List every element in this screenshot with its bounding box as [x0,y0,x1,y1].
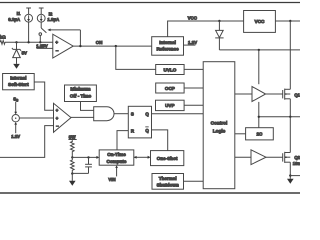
switch control arrow from ON feedback [47,29,80,32]
ground for divider [69,174,76,186]
capacitor C1 feedforward [85,157,92,173]
wire Q2 source to right edge [290,175,300,177]
current source I2 [37,14,45,22]
box UVP [156,100,185,110]
node dot SW left [258,116,260,118]
ground for zener [13,64,20,69]
selector node circle [12,115,19,122]
svg-text:1.8µA: 1.8µA [47,17,60,22]
box VCC regulator [244,11,276,33]
buffer U5 top gate driver [252,87,266,102]
wire Qbar to one-shot [152,130,168,151]
node dot divider ground [71,172,73,174]
node dot boot branch [258,49,260,51]
node dot I1 tap [27,41,29,43]
bottom rule [0,192,300,194]
svg-text:Internal: Internal [159,40,176,45]
arrow SS into selector [14,102,17,115]
svg-text:OCP: OCP [165,86,175,91]
supply tick for I1 [26,8,31,14]
buffer U6 bottom gate driver [251,150,266,165]
AND gate U3 [94,107,114,121]
wire boot down to driver [258,50,260,84]
node dot VCC right [289,20,291,22]
svg-text:2C: 2C [256,132,263,137]
wire thermal shutdown to control logic [184,180,204,182]
svg-text:+: + [56,108,59,113]
svg-text:1.2V: 1.2V [11,134,20,139]
svg-text:Off - Time: Off - Time [70,93,92,98]
node dot FB divider [71,156,73,158]
wire control to top driver [235,93,252,95]
wire control to 2C [235,133,246,135]
node dot zener tap [15,41,17,43]
resistor R1 10k at left edge [0,40,5,44]
op-amp U2 error comparator [54,103,72,132]
svg-text:10m: 10m [293,161,300,166]
svg-text:VCC: VCC [188,15,198,20]
wire Q to control logic [152,113,204,115]
wire U2 output to AND [71,116,94,118]
svg-text:Compute: Compute [107,159,127,164]
box internal reference [152,37,184,56]
svg-text:I2: I2 [49,11,53,16]
latch U4 SR [128,106,151,138]
zener diode D2 5V [12,42,21,64]
svg-text:−: − [56,49,59,54]
wire SW node to right edge [259,116,300,118]
box thermal shutdown [152,174,184,190]
wire UVP to control logic [184,104,203,106]
box minimum off-time [65,85,97,102]
node dot cap tap [87,156,89,158]
svg-text:Q1: Q1 [294,92,300,97]
arrow 1.2V into selector [14,122,17,133]
svg-text:On-Time: On-Time [107,152,126,157]
wire driver to Q1 gate [266,93,283,95]
svg-text:Logic: Logic [213,129,226,134]
svg-text:ON: ON [96,40,103,45]
svg-text:Q: Q [145,128,149,133]
ground for Q2 [287,179,294,184]
svg-text:1.2V: 1.2V [188,40,197,45]
wire control to bottom driver [235,156,251,158]
bootstrap diode D1 [215,21,223,50]
svg-text:SS: SS [13,97,18,103]
box OCP [156,83,184,93]
svg-text:+: + [56,116,59,121]
wire on-time to one-shot [134,156,148,158]
switch SW1 contact [39,33,42,36]
svg-text:0.3µA: 0.3µA [8,17,21,22]
node dot Q2 source [289,174,291,176]
wire soft-start to error amp [34,82,53,110]
box one-shot [151,151,184,166]
wire VCC rail [168,21,300,37]
wire I2 to switch [40,22,42,28]
svg-text:Q: Q [145,112,149,117]
wire 1.2V output stub [184,44,196,46]
svg-text:Reference: Reference [156,47,179,52]
svg-text:+: + [55,40,58,45]
svg-text:One-Shot: One-Shot [157,156,178,161]
node dot SW at Q1 [289,116,291,118]
node dot I2 tap [39,41,41,43]
op-amp U1 on-comparator [53,34,73,58]
svg-text:−: − [56,123,59,128]
svg-text:Control: Control [211,121,228,126]
wire VCC down to Q1 drain [289,21,291,89]
arrow VIN into on-time compute [115,165,118,176]
svg-text:1.25V: 1.25V [36,44,48,49]
wire UVLO to control logic [184,68,203,70]
wire selector to error amp [19,117,53,119]
wire OCP to control logic [184,87,203,89]
resistor R3 divider bottom [71,157,75,173]
mosfet Q2 [283,152,291,163]
resistor R2 divider top [68,135,76,158]
wire main input node [5,41,53,43]
top rule [0,2,300,4]
node dot diode anode [218,20,220,22]
arrow into on-time compute [96,156,99,159]
wire I1 to node [28,22,30,42]
box on-time compute [99,150,134,165]
svg-text:5V: 5V [22,51,27,56]
svg-text:100kΩ: 100kΩ [0,35,6,40]
node dot feedback tap [79,45,81,47]
wire driver to SW [258,102,260,128]
wire R from on-time compute [117,131,128,150]
wire min-off-time to AND [81,102,94,111]
1.25V reference stub into minus input [36,47,52,49]
svg-text:VIN: VIN [108,177,115,182]
wire Q2 source to ground [289,162,291,179]
feedback wire from comparator output [79,30,81,46]
mosfet Q1 [283,89,291,100]
box 2C [246,128,274,140]
wire Q1 source to SW [289,99,291,117]
wire cap to divider ground node [72,172,88,174]
svg-text:Q2: Q2 [294,155,300,160]
svg-text:S: S [131,112,134,117]
svg-text:Soft-Start: Soft-Start [8,82,29,87]
wire U1 output ON [73,45,152,47]
svg-text:Minimum: Minimum [70,87,90,92]
svg-text:Thermal: Thermal [159,176,177,181]
svg-text:Internal: Internal [10,76,26,81]
node blob at on-time output [134,156,137,159]
box internal soft-start [3,74,35,90]
wire ON down to UVLO [116,46,156,69]
box UVLO [156,65,184,75]
svg-text:SW: SW [69,135,77,140]
wire switch to node [39,35,41,42]
box control logic [203,62,235,189]
wire AND output to S [114,113,128,115]
current source I1 [25,14,33,22]
wire Q2 drain to SW [289,117,291,153]
svg-text:VCC: VCC [255,19,266,24]
supply tick for I2 [39,8,44,14]
svg-text:Shutdown: Shutdown [157,183,179,188]
svg-text:UVLO: UVLO [164,67,177,72]
wire driver to Q2 gate [266,156,283,158]
wire FB node to on-time [72,156,97,158]
svg-text:I1: I1 [17,11,21,16]
wire BOOT net to right edge [219,49,300,51]
node dot ON branch [115,45,117,47]
switch SW1 blade [41,28,46,33]
wire FB from left edge to minus input [0,126,54,158]
arrow into one-shot [148,156,151,159]
svg-text:UVP: UVP [165,103,174,108]
